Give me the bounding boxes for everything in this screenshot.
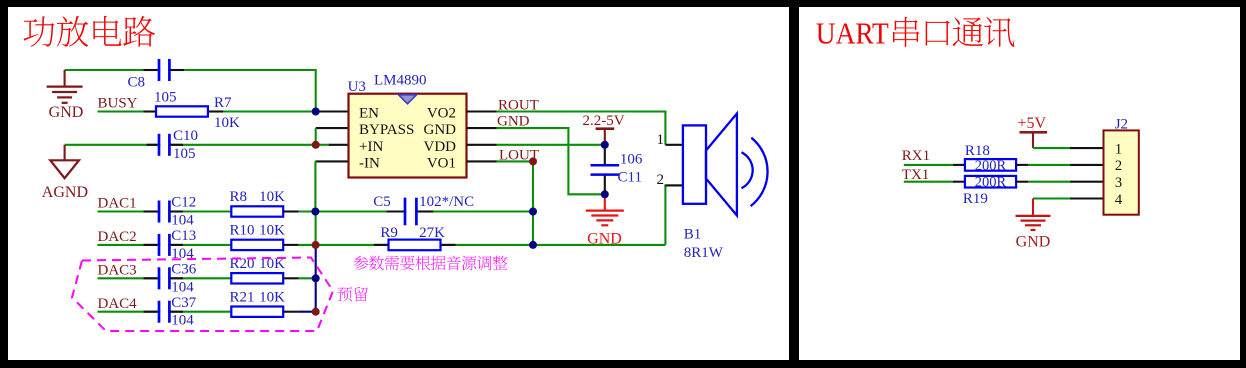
junction +IN node <box>312 141 320 149</box>
capacitor C36 <box>160 274 168 282</box>
resistor R10 <box>231 240 283 250</box>
svg-text:C37: C37 <box>171 295 197 311</box>
svg-text:GND: GND <box>424 122 457 138</box>
svg-text:RX1: RX1 <box>902 148 930 164</box>
annotation 预留 <box>338 287 368 302</box>
svg-text:102*/NC: 102*/NC <box>419 194 474 210</box>
pin EN wire <box>316 110 349 112</box>
svg-text:R10: R10 <box>230 223 255 239</box>
svg-text:R8: R8 <box>230 189 248 205</box>
wire TX1 net <box>904 181 953 183</box>
wire pin4 to GND <box>1033 197 1070 199</box>
annotation 参数需要根据音源调整 <box>354 256 508 271</box>
wire R20 to bus <box>299 277 316 279</box>
wire bus DAC1-DAC2 <box>315 212 317 245</box>
svg-text:DAC1: DAC1 <box>98 196 137 212</box>
pin VO2 stub <box>467 110 497 112</box>
svg-text:DAC2: DAC2 <box>98 229 137 245</box>
wire VDD net <box>497 144 605 146</box>
resistor R20 <box>231 273 283 283</box>
svg-text:2.2-5V: 2.2-5V <box>583 113 625 129</box>
wire BUSY net <box>98 110 316 112</box>
wire +5V to pin1 <box>1033 147 1070 149</box>
resistor R9 <box>389 240 441 251</box>
pin BYPASS wire <box>316 127 349 129</box>
wire DAC row y=211.5 <box>98 210 232 212</box>
wire R8 to bus <box>299 210 316 212</box>
svg-text:3: 3 <box>1115 175 1122 191</box>
svg-text:104: 104 <box>171 213 194 229</box>
svg-text:1: 1 <box>657 132 665 148</box>
op-amp U3 LM4890 <box>349 94 467 178</box>
junction DAC4 node <box>312 308 320 316</box>
pin GND stub <box>467 127 497 129</box>
svg-text:-IN: -IN <box>359 155 380 171</box>
svg-text:C5: C5 <box>373 194 391 210</box>
capacitor C5 <box>406 208 415 216</box>
svg-text:105: 105 <box>173 146 196 162</box>
wire R18 to J2 <box>1016 164 1028 166</box>
svg-text:GND: GND <box>49 104 84 121</box>
svg-text:VDD: VDD <box>424 139 457 155</box>
wire LOUT net <box>497 160 534 162</box>
wire AGND to +IN net <box>65 144 316 146</box>
wire GND pin net <box>497 128 603 194</box>
connector J2 <box>1104 130 1139 214</box>
ground AGND <box>64 145 66 161</box>
ground GND (power) <box>64 70 66 86</box>
svg-text:200R: 200R <box>975 175 1007 191</box>
capacitor C8 <box>160 66 168 74</box>
svg-text:27K: 27K <box>419 225 445 241</box>
wire RX1 net <box>904 164 953 166</box>
wire DAC row y=311.7 <box>98 311 232 313</box>
resistor R18 <box>965 159 1016 171</box>
svg-text:R18: R18 <box>965 143 990 159</box>
svg-text:C13: C13 <box>171 228 196 244</box>
svg-text:4: 4 <box>1115 192 1123 208</box>
svg-text:B1: B1 <box>684 227 702 243</box>
svg-text:8R1W: 8R1W <box>684 245 724 261</box>
svg-text:C36: C36 <box>171 262 197 278</box>
title 功放电路 <box>23 16 155 47</box>
svg-text:C11: C11 <box>618 169 642 185</box>
capacitor C13 <box>160 241 168 249</box>
svg-text:BYPASS: BYPASS <box>359 122 414 138</box>
svg-text:GND: GND <box>1016 233 1051 250</box>
pin +IN wire <box>329 144 349 146</box>
junction DAC2/R9 node <box>312 241 320 249</box>
svg-text:C8: C8 <box>128 75 146 91</box>
svg-text:104: 104 <box>171 313 194 329</box>
svg-text:R19: R19 <box>963 191 988 207</box>
junction EN node <box>312 108 320 116</box>
junction DAC1/C5 node <box>311 208 319 216</box>
svg-text:200R: 200R <box>975 158 1007 174</box>
capacitor C37 <box>160 308 168 316</box>
junction VDD node <box>601 141 609 149</box>
capacitor C12 <box>160 208 168 216</box>
svg-text:2: 2 <box>1115 158 1122 174</box>
wire to speaker pin2 <box>665 185 683 245</box>
svg-text:BUSY: BUSY <box>98 95 138 111</box>
svg-text:10K: 10K <box>259 189 285 205</box>
wire C5 net <box>315 210 533 212</box>
svg-text:+IN: +IN <box>359 139 383 155</box>
wire R21 to bus <box>299 311 316 313</box>
capacitor C10 <box>160 141 168 149</box>
svg-text:EN: EN <box>359 106 379 122</box>
svg-text:10K: 10K <box>214 115 240 131</box>
svg-text:LM4890: LM4890 <box>374 73 427 89</box>
svg-text:C12: C12 <box>171 195 196 211</box>
svg-text:104: 104 <box>171 279 194 295</box>
junction LOUT corner <box>529 157 537 165</box>
svg-text:2: 2 <box>657 172 665 188</box>
svg-text:10K: 10K <box>259 223 285 239</box>
resistor R19 <box>965 176 1016 188</box>
pin -IN wire <box>315 160 348 162</box>
capacitor C11 <box>604 145 606 164</box>
svg-text:UART: UART <box>816 16 889 51</box>
resistor R21 <box>231 307 283 317</box>
wire DAC row y=244.9 <box>98 244 232 246</box>
svg-text:105: 105 <box>154 90 177 106</box>
svg-text:DAC4: DAC4 <box>98 296 138 312</box>
svg-text:VO1: VO1 <box>427 155 456 171</box>
wire DAC row y=278.3 <box>98 277 232 279</box>
svg-text:+5V: +5V <box>1018 115 1047 132</box>
reserved dashed outline <box>72 258 333 332</box>
wire R19 to J2 <box>1016 181 1028 183</box>
pin VDD stub <box>467 144 497 146</box>
resistor R8 <box>231 206 283 216</box>
junction C5 right node <box>529 208 537 216</box>
wire R10 to bus <box>299 244 316 246</box>
ground GND uart <box>1032 199 1034 216</box>
svg-text:R7: R7 <box>214 95 232 111</box>
wire ROUT net <box>497 112 666 145</box>
junction C11 bottom node <box>601 190 609 198</box>
svg-text:R21: R21 <box>230 289 255 305</box>
svg-text:U3: U3 <box>348 79 366 95</box>
svg-text:AGND: AGND <box>42 184 88 201</box>
ground GND red <box>604 194 606 210</box>
svg-text:VO2: VO2 <box>427 106 456 122</box>
junction DAC3 node <box>312 274 320 282</box>
pin VO1 stub <box>467 160 497 162</box>
svg-text:106: 106 <box>620 152 643 168</box>
junction R9 right node <box>529 241 537 249</box>
svg-text:1: 1 <box>1115 141 1122 157</box>
wire R9 net <box>316 244 666 246</box>
svg-text:R9: R9 <box>380 225 398 241</box>
svg-text:10K: 10K <box>259 289 285 305</box>
svg-text:DAC3: DAC3 <box>98 263 137 279</box>
wire C8 top net <box>65 70 316 112</box>
wire bus DAC2-DAC4 navy <box>315 245 317 312</box>
speaker B1 <box>683 114 768 216</box>
pin 1 speaker stub <box>665 144 683 146</box>
svg-text:C10: C10 <box>173 128 198 144</box>
resistor R7 <box>156 106 208 116</box>
svg-text:J2: J2 <box>1115 117 1128 133</box>
